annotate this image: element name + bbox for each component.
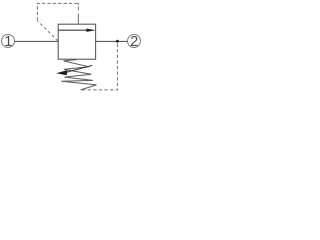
port 2 [128,34,141,50]
svg-text:2: 2 [130,34,138,50]
wire outlet [96,40,128,42]
wire pilot stub to valve top [77,3,79,5]
pilot line top dashed [37,21,58,41]
node junction [116,40,119,43]
port 1 [2,34,15,50]
flow path arrow [58,29,95,32]
wire inlet [14,40,58,42]
wire pilot top dashed run [37,3,78,20]
spring adjust arrow [56,65,92,75]
valve body envelope [58,24,95,59]
pilot line bottom dashed [81,44,118,90]
svg-text:1: 1 [4,34,12,50]
spring [61,60,96,90]
